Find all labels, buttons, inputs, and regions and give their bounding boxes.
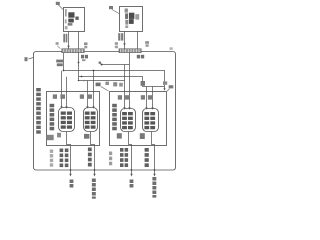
junction dot bottom edge output4 [154,169,156,171]
wire vA/hB: C1 left output down, long run right, into group 12 top [64,53,165,87]
label below block B1 [57,133,61,138]
wire output from B3 to bottom arrow [129,132,132,175]
leader line for label 12 [167,89,170,92]
wire output from B4 to bottom arrow [152,132,155,175]
processing block B1 [59,108,75,132]
junction dot bottom edge output3 [131,169,133,171]
junction dot hD at B2 left pin [83,80,85,82]
vertical label inside group box 11 [50,104,55,131]
faint mark near top-right corner [170,47,173,50]
vertical label: input signal switching section (outer left) [36,88,41,134]
arrowhead into block B3 right [128,107,130,110]
text inside block B3 [122,112,133,129]
arrowhead into block B4 right [151,107,153,110]
wire vB: C1 right output down [78,53,80,81]
arrowhead into block B2 right [92,106,94,109]
junction dot bottom edge output2 [94,169,96,171]
faint mark left of connector C1 [56,42,59,45]
label below block B2 [84,134,89,139]
processing block B4 [143,109,159,132]
wire vI: branch down into block B2 right pin [93,71,95,108]
arrowhead into group box 12 top [163,88,165,91]
bottom label col A2 (under group 11) [65,149,69,168]
label 12 [169,85,174,88]
label left of wire vA (two rows) [56,60,63,67]
junction dot hD corner [78,80,80,82]
secondary label below-left of block B1 [47,135,54,140]
arrowhead into block B1 left [60,106,62,109]
connector C1 (hatched terminal on top edge) [62,49,84,53]
text inside block B1 [61,112,72,129]
wire from box22 right pin down to connector C2 [137,32,139,49]
output label 2 below diagram [92,179,96,199]
processing block B2 [84,108,98,132]
bottom label col D1 (left of output 3) [120,148,124,167]
label below block B3 [117,133,122,138]
wire vH: branch down into block B4 right pin [152,87,154,109]
output label 4 below diagram [152,177,156,198]
wire from box21 left pin down to connector C1 [68,32,70,49]
labels above block B3 [118,95,122,99]
output label 1 below diagram [70,180,74,188]
junction dot hB corner at C1 left [63,70,65,72]
faint marks above edge right of C2 wires [145,41,149,44]
wire vF: branch down into block B4 left pin [146,87,148,109]
group box 11: first signal processing section [47,92,100,146]
label near arrow into group 12 [163,81,167,84]
small wire labels on lower branch near group 12 top-left [105,82,109,85]
label 12 near group box 12 top left [96,83,101,87]
arrowhead output 2 [93,174,95,177]
text inside block B4 [144,112,155,129]
label on wire pair from box21 [63,34,67,43]
connector C2 (hatched terminal on top edge) [119,49,141,53]
wire hA: short run into block B3 left pin [102,64,130,66]
outer box: main device 1 [34,52,176,171]
junction dot on vB [78,62,80,64]
label blob left of hC corner [141,81,145,86]
wire vJ: down into block B2 left pin [87,81,89,108]
wire from box22 left pin down to connector C2 [124,32,126,49]
label 1 [25,57,28,61]
wire hD: short branch to block B2 left pin [79,80,125,82]
wire vC: C2 left output straight down into block B3 right pin [129,53,131,108]
label right of connector C1 [81,55,88,61]
output label 3 below diagram [130,180,134,188]
arrowhead into block B1 right [65,106,67,109]
wire hE: lower run right to group 12 arrow [143,87,165,89]
wire output from B2 to bottom arrow [91,132,95,175]
arrowhead into block B3 left [123,107,125,110]
junction smudge at start of hA [99,62,101,64]
wire vD: corner down into block B3 left pin [124,65,126,109]
arrowhead output 4 [153,174,155,177]
leader line for label 21 [58,5,63,10]
wire into block B1 left pin from bundle [61,71,63,107]
arrowhead output 1 [69,174,71,177]
label on wire pair from box22 [118,33,123,40]
junction dot on hC [81,76,83,78]
vertical label inside group box 12 [112,104,117,131]
labels above block B4 [141,95,145,99]
label below block B4 [140,133,145,139]
leader line for label 1 [29,58,34,60]
label 22 [109,6,113,9]
box source unit 21 (top-left) [64,8,85,32]
wire from box21 right pin down to connector C1 [78,32,80,49]
label 21 [56,2,60,5]
faint label col left of col A1 [50,150,53,167]
leader line for label 22 [112,10,119,14]
labels above block B2 [80,94,84,98]
wire output from B1 to bottom arrow [67,132,71,175]
bottom label col B (left of output 2) [88,148,92,167]
leader line for label 12 (top left) [101,87,109,91]
arrowhead on wire from box21 [67,46,69,49]
labels (C-) above block B1 [53,94,152,99]
faint bottom label col C [109,152,112,166]
processing block B3 [121,109,136,132]
text inside box 22 [125,9,128,13]
label right of connector C2 [137,55,144,59]
arrowhead into block B4 left [145,107,147,110]
bottom label col E (left of output 4) [145,148,149,167]
junction dot on hB at B2 right pin branch [93,70,95,72]
bottom label col A1 (under group 11) [60,149,64,168]
arrowhead on wire from box22 [123,43,125,46]
faint marks above edge right of C1 [84,42,88,45]
text inside block B2 [85,112,96,129]
wire hC: from vB right then down at 142 [79,77,143,87]
junction dot bottom edge output1 [70,169,72,171]
wire into block B1 right pin from bundle [66,77,68,107]
box source unit 22 (top-right) [120,7,143,32]
arrowhead into block B2 left [86,106,88,109]
group box 12: second signal processing section [110,92,167,146]
bottom label col D2 (left of output 3) [125,148,129,167]
arrowhead output 3 [130,174,132,177]
text inside box 21 [65,9,67,17]
faint marks left of box22 bottom corner [115,42,118,45]
